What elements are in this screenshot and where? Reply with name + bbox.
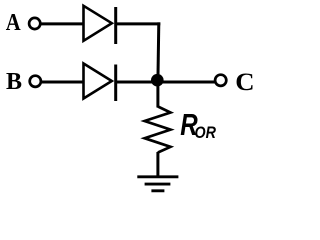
terminal B <box>30 76 41 87</box>
diode D1 <box>84 6 116 44</box>
diode D2 <box>84 64 116 102</box>
node A label <box>6 9 21 36</box>
node B label <box>6 69 22 95</box>
wire resistor to ground <box>156 152 159 177</box>
terminal C <box>215 75 226 86</box>
wire D1 cathode to top corner <box>116 22 161 25</box>
svg-text:A: A <box>6 9 21 36</box>
R_OR value label <box>180 107 216 142</box>
resistor R_OR <box>145 107 171 153</box>
wire D2 cathode to output C <box>116 81 215 84</box>
node C label <box>235 68 254 96</box>
wire B to diode D2 <box>42 81 84 84</box>
wire vertical from top corner down to junction <box>156 22 160 82</box>
terminal A <box>29 18 40 29</box>
svg-text:B: B <box>6 69 22 95</box>
svg-text:C: C <box>235 68 254 96</box>
ground <box>137 177 178 191</box>
svg-text:OR: OR <box>195 124 217 142</box>
junction node dot <box>151 74 164 87</box>
wire A to diode D1 <box>41 22 84 25</box>
wire junction to resistor <box>156 82 159 108</box>
